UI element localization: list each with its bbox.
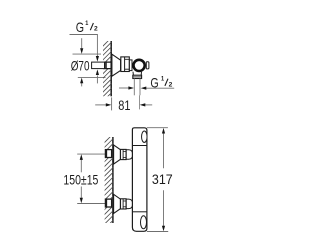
lower escutcheon cone [114,194,121,213]
wall hatching top view [99,33,116,105]
svg-text:1: 1 [85,20,88,27]
dimension 150±15 bottom extension line [77,203,105,205]
svg-text:Ø70: Ø70 [71,58,90,74]
dimension 150±15 line and arrows [80,154,83,203]
compression nut band [133,75,142,78]
in-wall pipe connector G 1/2 [92,62,112,69]
dimension Ø70 top arrow [80,38,83,54]
dimension 317 bottom extension line [147,231,168,233]
body bottom joint line [132,211,147,213]
svg-text:150±15: 150±15 [63,172,98,188]
dimension Ø70 bottom arrow [80,78,83,87]
leader arrow G 1/2 down to wall connector [96,35,99,62]
dimension 317 top extension line [147,127,168,129]
svg-text:2: 2 [94,26,98,33]
upper check valve bulge [126,150,133,160]
wall section front view [112,137,114,223]
bottom cap ellipse [141,216,147,229]
connector ring [129,60,132,71]
dimension Ø70 bottom extension line [78,76,106,78]
upper escutcheon cone [114,145,121,164]
svg-text:317: 317 [152,171,173,187]
pipe extension line for 81 [139,95,141,109]
dimension Ø70 top extension line [73,53,102,55]
svg-text:1: 1 [161,76,164,83]
top cap ellipse [142,131,148,142]
side cap [146,62,149,69]
lower in-wall elbow [105,199,111,207]
leader underline G 1/2 top [70,34,98,36]
dimension 81 left arrow [95,103,111,106]
leader arrow G 1/2 pipe right with underline [141,87,175,90]
wall section top view [110,41,112,96]
upper in-wall elbow [105,150,111,158]
label G 1/2 right [150,76,172,91]
leader arrow G 1/2 pipe left [119,86,134,89]
svg-text:2: 2 [169,81,173,88]
dimension 317 line and arrows [162,128,165,231]
thermostat body outline [132,128,147,232]
upper union nut [121,149,127,159]
wall hatching front view [100,129,118,233]
outlet neck [133,72,142,76]
svg-text:G: G [76,20,84,35]
escutcheon cone Ø70 [112,54,121,76]
label G 1/2 top [76,20,98,35]
dimension 150±15 top extension line [77,153,105,155]
leader arrow G 1/2 up to wall connector [96,69,99,83]
svg-text:81: 81 [118,97,130,113]
outlet pipe [134,79,140,96]
wall extension line for 81 [111,97,113,110]
lower check valve bulge [126,199,133,209]
union nut [121,57,130,72]
valve ball body [134,60,145,71]
dimension 81 right arrow [140,103,153,106]
lower union nut [121,199,127,209]
body top joint line [132,145,147,147]
